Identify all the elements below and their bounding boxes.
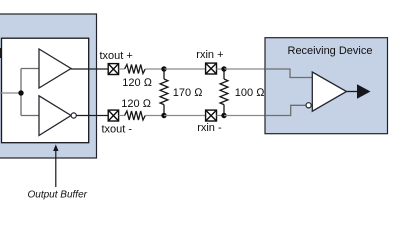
svg-text:rxin +: rxin + [196, 49, 223, 61]
pad txout- (crossed box) [108, 110, 118, 121]
output buffer block (blue box) [0, 14, 97, 158]
svg-text:txout -: txout - [102, 124, 133, 136]
wire rxn into receiving device [224, 115, 265, 117]
inner white box [2, 38, 89, 143]
svg-text:rxin -: rxin - [197, 122, 222, 134]
buffer A (non-inverting) [39, 49, 71, 88]
node rxp junction [221, 66, 226, 71]
wire branch to buffer B [21, 115, 39, 117]
wire pad to resistor bottom [119, 115, 125, 117]
wire input bus vertical [20, 69, 22, 116]
svg-text:Output Buffer: Output Buffer [28, 190, 88, 201]
wire receiver output [347, 91, 359, 93]
wire branch to buffer A [21, 68, 39, 70]
node input junction [18, 90, 23, 95]
svg-text:Receiving Device: Receiving Device [288, 45, 373, 57]
wire resistor to node [145, 68, 164, 70]
receiver amp triangle [312, 72, 346, 111]
pad rxin+ (crossed box) [206, 63, 217, 74]
svg-text:120 Ω: 120 Ω [121, 98, 151, 110]
callout arrow shaft [55, 149, 57, 187]
receiving device block (blue box) [265, 38, 388, 134]
callout arrowhead [53, 144, 58, 151]
svg-text:100 Ω: 100 Ω [235, 87, 265, 99]
wire rxp step inside box [265, 69, 312, 78]
wire node to rxin+ pad [164, 68, 206, 70]
wire pad to resistor [119, 68, 125, 70]
receiver input bubble [306, 103, 311, 108]
node rxn junction [221, 113, 226, 118]
wire txout+ from buffer A [71, 68, 108, 70]
buffer B bubble [71, 113, 76, 118]
pad txout+ (crossed box) [108, 64, 118, 75]
resistor 120 ohm top [125, 65, 146, 74]
wire rxp into receiving device [224, 69, 312, 78]
svg-text:txout +: txout + [100, 50, 133, 62]
svg-text:120 Ω: 120 Ω [122, 77, 152, 89]
wire txout- from buffer B [76, 115, 108, 117]
wire rxin- pad to node [217, 115, 225, 117]
wire rxn step inside box [265, 105, 306, 115]
node txn junction [161, 113, 166, 118]
output arrowhead [357, 84, 371, 99]
left edge artifact mark [0, 48, 1, 58]
resistor 120 ohm bottom [125, 111, 146, 120]
wire resistor to node bottom [145, 115, 164, 117]
resistor 170 ohm vertical [160, 69, 168, 116]
resistor 100 ohm vertical [220, 69, 228, 116]
node txp junction [161, 66, 166, 71]
wire rxin+ pad to node [217, 68, 225, 70]
pad rxin- (crossed box) [206, 110, 217, 121]
svg-text:170 Ω: 170 Ω [173, 87, 203, 99]
wire input stub [0, 92, 21, 94]
buffer B (inverting) [39, 96, 71, 136]
wire node to rxin- pad [164, 115, 206, 117]
